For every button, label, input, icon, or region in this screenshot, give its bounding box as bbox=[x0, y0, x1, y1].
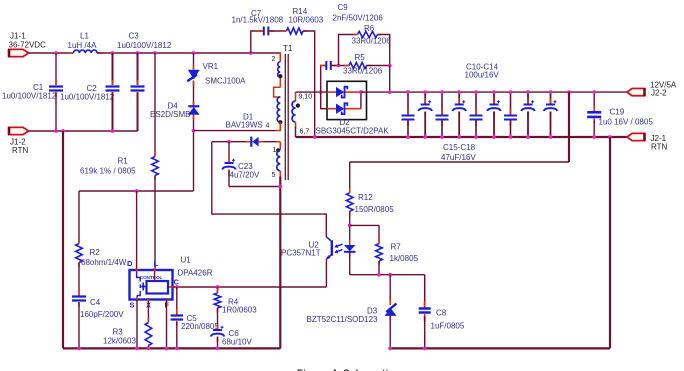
node ground junction C6 bbox=[216, 347, 220, 351]
svg-text:R12: R12 bbox=[358, 193, 373, 202]
svg-text:C15-C18: C15-C18 bbox=[443, 143, 476, 152]
resistor R1 619k 1%/0805 bbox=[80, 53, 158, 270]
transformer bias winding bbox=[277, 150, 280, 171]
svg-text:C3: C3 bbox=[129, 32, 140, 41]
capacitor C13 100u/16V bank bbox=[521, 90, 535, 139]
node junction R5/R6 right bbox=[388, 64, 392, 68]
node junction snubber on output rail bbox=[388, 90, 392, 94]
wire secondary ground rail bbox=[296, 136, 628, 138]
wire R6 loop left bbox=[339, 35, 358, 66]
svg-text:619k 1% / 0805: 619k 1% / 0805 bbox=[80, 167, 136, 176]
capacitor C9 2nF/50V/1206 bbox=[320, 3, 383, 70]
svg-text:CONTROL: CONTROL bbox=[140, 275, 163, 280]
svg-text:5: 5 bbox=[272, 172, 276, 179]
wire R14 to secondary return bbox=[303, 31, 315, 137]
wire bias node to opto collector bbox=[212, 142, 326, 237]
wire bias return column bbox=[279, 177, 281, 349]
node top rail junction at R1 bbox=[153, 51, 157, 55]
wire S pin to ground bbox=[136, 300, 138, 349]
wire primary pin 2 entry bbox=[279, 53, 281, 62]
node bottom rail junction ground drop bbox=[61, 129, 65, 133]
wire bottom diode jog bbox=[321, 92, 327, 109]
wire input top rail left bbox=[29, 52, 74, 54]
svg-text:150R/0805: 150R/0805 bbox=[355, 205, 395, 214]
diode D3 BZT52C11/SOD123 zener bbox=[307, 275, 397, 349]
svg-text:RTN: RTN bbox=[651, 143, 668, 152]
wire drain column below D4 bbox=[193, 115, 195, 191]
svg-text:R5: R5 bbox=[355, 53, 366, 62]
svg-text:12k/0603: 12k/0603 bbox=[103, 337, 136, 346]
svg-text:SBG3045CT/D2PAK: SBG3045CT/D2PAK bbox=[316, 127, 390, 136]
svg-text:9,10: 9,10 bbox=[299, 94, 313, 101]
capacitor C11 100u/16V bank bbox=[452, 90, 466, 139]
node ground junction S bbox=[135, 347, 139, 351]
resistor R14 10R/0603 bbox=[282, 7, 324, 34]
node ground junction C5 bbox=[175, 347, 179, 351]
capacitor C12 100u/16V bank bbox=[487, 90, 501, 139]
node ground junction R2/C4 bbox=[77, 347, 81, 351]
wire D1 row right bbox=[259, 141, 281, 143]
svg-text:1u0/100V/1812: 1u0/100V/1812 bbox=[2, 92, 57, 101]
svg-text:1n/1.5kV/1808: 1n/1.5kV/1808 bbox=[232, 16, 284, 25]
node polarity dot bias winding bbox=[276, 148, 280, 152]
node junction C8 ground bbox=[423, 347, 427, 351]
wire primary pin 4 exit bbox=[279, 122, 281, 130]
svg-text:X: X bbox=[146, 301, 151, 310]
wire 9,10 row bbox=[296, 91, 328, 93]
wire secondary pin 9,10 riser bbox=[295, 92, 297, 101]
svg-text:L1: L1 bbox=[80, 32, 89, 41]
svg-text:100u/16V: 100u/16V bbox=[465, 71, 500, 80]
node junction bias return bbox=[278, 185, 282, 189]
pin label 6,7 bbox=[300, 129, 310, 136]
capacitor C17 47uF/16V bank bbox=[470, 90, 483, 139]
node top rail junction at C1 bbox=[54, 51, 58, 55]
capacitor C6 68u/10V bbox=[211, 308, 253, 348]
pin label C bbox=[174, 278, 180, 287]
resistor R4 1R0/0603 bbox=[214, 287, 257, 315]
wire C9 to R5 bbox=[331, 65, 349, 67]
node top rail junction at C3 bbox=[136, 51, 140, 55]
transformer primary winding lower bbox=[277, 97, 280, 122]
capacitor C18 47uF/16V bank bbox=[504, 90, 517, 139]
svg-text:RTN: RTN bbox=[12, 146, 29, 155]
resistor R7 1k/0805 bbox=[376, 225, 419, 274]
svg-text:1u0/100V/1812: 1u0/100V/1812 bbox=[117, 41, 172, 50]
transformer primary winding upper bbox=[278, 62, 281, 77]
node junction opto LED top bbox=[348, 224, 352, 228]
capacitor C15 47uF/16V bank bbox=[402, 90, 415, 139]
svg-text:4: 4 bbox=[266, 123, 270, 130]
svg-text:VR1: VR1 bbox=[203, 62, 219, 71]
node junction R4 tap bbox=[216, 285, 220, 289]
svg-text:4u7/20V: 4u7/20V bbox=[230, 171, 260, 180]
node bottom rail junction C2 bbox=[111, 129, 115, 133]
node junction output sense bbox=[567, 90, 571, 94]
wire primary winding jog bbox=[274, 87, 281, 97]
svg-text:1k/0805: 1k/0805 bbox=[390, 254, 419, 263]
pin number 4 bbox=[266, 123, 270, 130]
svg-text:C4: C4 bbox=[90, 298, 101, 307]
connector J1-2 (RTN input) bbox=[9, 127, 29, 155]
svg-text:47uF/16V: 47uF/16V bbox=[441, 153, 476, 162]
capacitor C16 47uF/16V bank bbox=[436, 90, 449, 139]
wire opto emitter to C line bbox=[325, 259, 327, 287]
inductor L1 1uH/4A bbox=[68, 32, 102, 54]
node top rail junction at C2 bbox=[111, 51, 115, 55]
connector J1-1 (36-72VDC input) bbox=[9, 32, 47, 58]
pin label D bbox=[127, 259, 133, 268]
diode D4 ES2D/SMB bbox=[150, 102, 200, 120]
svg-text:33R0/1206: 33R0/1206 bbox=[343, 67, 383, 76]
wire D2 output exit bbox=[361, 91, 367, 93]
capacitor C14 100u/16V bank bbox=[544, 90, 558, 139]
wire C7 branch riser bbox=[251, 31, 264, 53]
led U2 optocoupler diode bbox=[344, 225, 356, 274]
transformer secondary winding bbox=[292, 101, 296, 122]
capacitor C4 160pF/200V bbox=[72, 263, 124, 349]
svg-text:BZT52C11/SOD123: BZT52C11/SOD123 bbox=[307, 315, 379, 324]
svg-text:C9: C9 bbox=[338, 3, 349, 12]
svg-text:6,7: 6,7 bbox=[300, 129, 310, 136]
node junction C5 tap bbox=[175, 285, 179, 289]
pin number 5 bbox=[272, 172, 276, 179]
svg-text:C8: C8 bbox=[436, 309, 447, 318]
node junction 9,10 snubber tap bbox=[319, 90, 323, 94]
svg-text:2nF/50V/1206: 2nF/50V/1206 bbox=[333, 14, 384, 23]
svg-text:L: L bbox=[154, 259, 159, 268]
svg-text:1R0/0603: 1R0/0603 bbox=[222, 306, 257, 315]
label C10-C14 100u/16V bbox=[465, 63, 500, 80]
svg-text:R3: R3 bbox=[113, 328, 124, 337]
svg-text:DPA426R: DPA426R bbox=[178, 269, 213, 278]
label C15-C18 47uF/16V bbox=[441, 143, 476, 162]
diode D2 SBG3045CT/D2PAK dual schottky bbox=[316, 81, 390, 135]
capacitor C5 220n/0805 bbox=[171, 287, 220, 348]
node junction R5/R6 left bbox=[337, 64, 341, 68]
svg-text:S: S bbox=[130, 301, 135, 310]
node junction C23 tap bbox=[227, 140, 231, 144]
svg-text:J1-1: J1-1 bbox=[10, 32, 26, 41]
wire U1 D pin column bbox=[136, 191, 138, 270]
wire output sense drop bbox=[568, 92, 570, 162]
svg-text:R2: R2 bbox=[90, 248, 101, 257]
node bottom rail junction C1 bbox=[54, 129, 58, 133]
node ground junction X bbox=[147, 347, 151, 351]
node polarity dot primary top bbox=[278, 74, 282, 78]
transformer T1 core bbox=[283, 44, 293, 180]
tvs diode VR1 SMCJ100A bbox=[187, 62, 246, 86]
pin number 2 bbox=[272, 56, 276, 63]
svg-text:2: 2 bbox=[272, 56, 276, 63]
wire R5 right bbox=[367, 65, 390, 67]
svg-text:ES2D/SMB: ES2D/SMB bbox=[150, 110, 190, 119]
wire primary winding mid lead bbox=[279, 77, 281, 87]
pin label L bbox=[154, 259, 159, 268]
wire R6 loop right bbox=[378, 35, 390, 66]
wire bias pin 5 exit bbox=[279, 171, 281, 177]
node top rail junction at C7 branch bbox=[249, 51, 253, 55]
svg-text:C19: C19 bbox=[610, 108, 625, 117]
connector J2-2 (12V/5A output) bbox=[627, 81, 677, 98]
resistor R5 33R0/1206 bbox=[343, 53, 383, 76]
wire VR1-D4 lead bbox=[193, 81, 195, 107]
svg-text:D: D bbox=[127, 259, 133, 268]
capacitor C10 100u/16V bank bbox=[418, 90, 432, 139]
wire drain jog horizontal bbox=[79, 190, 194, 192]
wire snubber riser bbox=[321, 66, 327, 93]
wire C pin line bbox=[173, 286, 327, 288]
pin label S bbox=[130, 301, 135, 310]
svg-text:1u0/100V/1812: 1u0/100V/1812 bbox=[60, 93, 115, 102]
pin label 9,10 bbox=[299, 94, 313, 101]
wire input bottom rail bbox=[29, 130, 138, 132]
capacitor C3 1u0/100V/1812 bbox=[117, 32, 172, 132]
svg-text:PC357N1T: PC357N1T bbox=[281, 249, 321, 258]
svg-text:R6: R6 bbox=[364, 24, 375, 33]
node polarity dot secondary bbox=[296, 104, 300, 108]
caption Figure 4 (clipped) bbox=[297, 368, 394, 371]
wire snubber to output rail bbox=[389, 66, 391, 93]
wire F pin to ground bbox=[166, 300, 168, 349]
node junction R7 bottom bbox=[377, 273, 381, 277]
capacitor C23 4u7/20V bbox=[222, 142, 260, 187]
wire opto bottom row bbox=[350, 274, 425, 276]
wire opto top row bbox=[350, 224, 379, 226]
wire input top rail right of L1 bbox=[97, 52, 281, 54]
svg-text:10R/0603: 10R/0603 bbox=[289, 16, 324, 25]
svg-text:68u/10V: 68u/10V bbox=[222, 338, 252, 347]
svg-text:SMCJ100A: SMCJ100A bbox=[205, 77, 246, 86]
svg-text:U1: U1 bbox=[181, 256, 192, 265]
resistor R3 12k/0603 bbox=[103, 300, 152, 350]
node junction drain to U1 D pin bbox=[135, 189, 139, 193]
wire C7 to R14 bbox=[269, 30, 287, 32]
wire output rail bbox=[367, 91, 628, 93]
capacitor C2 1u0/100V/1812 bbox=[60, 53, 120, 131]
capacitor C1 1u0/100V/1812 bbox=[2, 53, 63, 131]
svg-text:1: 1 bbox=[273, 147, 277, 154]
svg-text:R7: R7 bbox=[391, 243, 402, 252]
capacitor C7 1n/1.5kV/1808 bbox=[232, 9, 284, 36]
capacitor C19 1u0 16V/0805 bbox=[587, 90, 653, 139]
svg-text:1uH /4A: 1uH /4A bbox=[68, 41, 98, 50]
op-amp U1 DPA426R (DPA-Switch IC) bbox=[130, 256, 213, 302]
svg-text:R1: R1 bbox=[118, 157, 129, 166]
wire primary ground rail bbox=[63, 347, 281, 349]
svg-text:160pF/200V: 160pF/200V bbox=[80, 310, 124, 319]
node junction D3 ground bbox=[388, 347, 392, 351]
svg-text:1uF/0805: 1uF/0805 bbox=[431, 322, 465, 331]
node polarity dot primary bottom bbox=[278, 120, 282, 124]
node junction C7/R14 return on ground bbox=[313, 135, 317, 139]
pin number 1 bbox=[273, 147, 277, 154]
diode D1 BAV19WS bbox=[226, 113, 263, 147]
transistor U2 PC357N1T optocoupler (photo-transistor) bbox=[281, 237, 343, 260]
wire pin4 row to transformer bbox=[194, 130, 281, 132]
svg-text:68ohm/1/4W: 68ohm/1/4W bbox=[81, 258, 127, 267]
wire bias bottom row bbox=[229, 186, 280, 188]
wire left ground drop bbox=[62, 131, 64, 348]
wire secondary pin 6,7 drop bbox=[295, 122, 297, 137]
wire bias pin 1 entry bbox=[279, 142, 281, 150]
svg-text:36-72VDC: 36-72VDC bbox=[9, 41, 47, 50]
svg-text:BAV19WS: BAV19WS bbox=[226, 121, 263, 130]
svg-text:33R0/1206: 33R0/1206 bbox=[352, 37, 392, 46]
node top rail junction at VR1 bbox=[192, 51, 196, 55]
node junction ground to feedback return bbox=[608, 135, 612, 139]
wire secondary feedback ground rail bbox=[390, 347, 610, 349]
node junction primary pin4 row bbox=[192, 129, 196, 133]
node ground junction F bbox=[165, 347, 169, 351]
resistor R2 68ohm/1/4W bbox=[76, 191, 127, 267]
wire feedback ground return bbox=[609, 137, 611, 348]
capacitor C8 1uF/0805 bbox=[419, 275, 465, 349]
pin label X bbox=[146, 301, 151, 310]
wire feedback sense row bbox=[350, 161, 569, 163]
wire D1 row left bbox=[212, 141, 251, 143]
node junction D2 cathodes bbox=[359, 90, 363, 94]
svg-text:1u0 16V / 0805: 1u0 16V / 0805 bbox=[599, 118, 654, 127]
connector J2-1 (RTN output) bbox=[627, 133, 668, 152]
svg-text:J2-2: J2-2 bbox=[651, 89, 667, 98]
node junction D3 top bbox=[388, 273, 392, 277]
resistor R12 150R/0805 bbox=[346, 162, 394, 225]
svg-text:T1: T1 bbox=[283, 44, 293, 53]
pin label F bbox=[165, 301, 170, 310]
resistor R6 33R0/1206 bbox=[352, 24, 392, 46]
wire VR1 top lead bbox=[193, 53, 195, 70]
